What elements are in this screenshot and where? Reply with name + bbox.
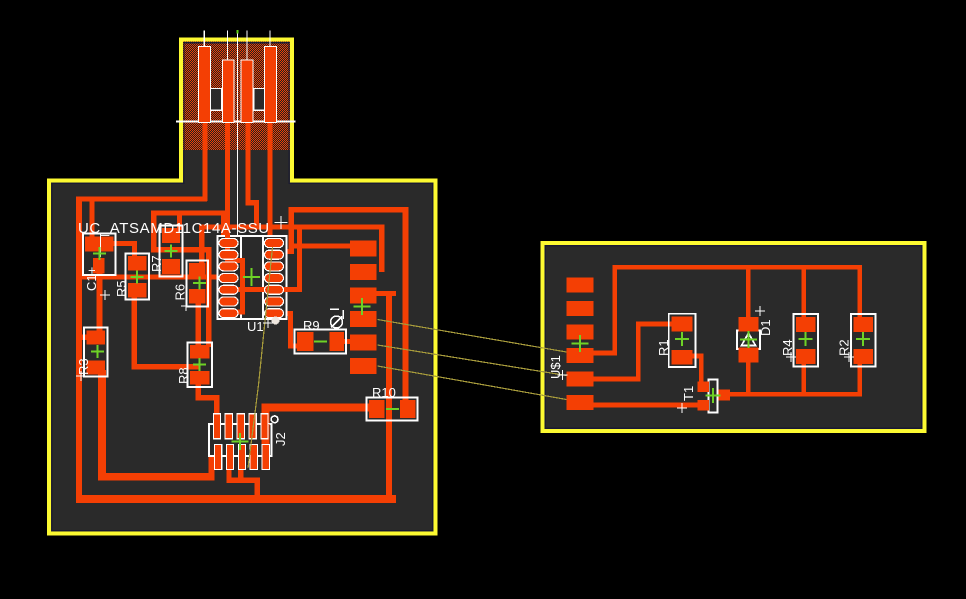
- J2 pad 4 bottom: [250, 445, 257, 470]
- wire R5 bottom horizontal to R8: [132, 364, 201, 369]
- J2 pad 5 top: [261, 414, 268, 439]
- wire R1 bottom to T1: [688, 354, 704, 359]
- connector J2: [209, 424, 272, 456]
- connector USB pad 3: [241, 60, 253, 123]
- wire R3 bottom down inner loop: [98, 370, 106, 480]
- transistor T1: [709, 380, 718, 413]
- wire down into J2 pad1 top: [214, 395, 219, 416]
- wire rail2 to R6 top: [199, 224, 204, 263]
- wire rail2 to U1 body crossing: [297, 229, 302, 292]
- U1 pin 8: [265, 309, 284, 318]
- wire down into R5 top: [132, 241, 137, 257]
- wire rail down to R2 top: [858, 265, 863, 318]
- wire down to GND bottom: [255, 477, 260, 499]
- wire into R9 left pad: [288, 343, 298, 348]
- U1 pin 4: [219, 274, 238, 283]
- U1 pin 1: [219, 239, 238, 248]
- wire R8 bottom down: [196, 384, 201, 400]
- U1 pin 3: [219, 262, 238, 271]
- svg-text:R5: R5: [114, 280, 129, 297]
- J2 pad 4 top: [249, 414, 256, 439]
- svg-text:R8: R8: [176, 367, 191, 384]
- board outline left (main PCB with USB tab): [49, 40, 436, 534]
- wire U1 channel vertical: [240, 258, 245, 315]
- IC U1: [218, 236, 287, 319]
- svg-text:R3: R3: [76, 358, 91, 375]
- capacitor C1: [83, 234, 116, 276]
- wire lower horizontal to R8: [151, 247, 211, 252]
- wire rail L left corner down: [151, 211, 157, 253]
- connector S1 pads: [350, 241, 377, 375]
- wire J2 bottom horizontal: [226, 477, 260, 483]
- wire down to R8 top: [206, 247, 211, 347]
- wire tap to R3 top: [77, 334, 92, 340]
- wire J2 right vertical over silk: [262, 424, 270, 456]
- wire hook into U1 R2: [284, 249, 294, 254]
- svg-text:R7: R7: [149, 255, 164, 272]
- wire into R1 top: [636, 322, 672, 327]
- S1 pad 3: [350, 288, 377, 304]
- wire C1 bottom to R3 top: [97, 271, 103, 332]
- connector USB pad 2: [223, 60, 235, 123]
- wire USB pad2 down: [225, 116, 230, 263]
- J2 pad 3 top: [237, 414, 244, 439]
- wire U$1 pad6 to T1 bottom left: [594, 403, 702, 408]
- J2 pad 1 top: [213, 414, 220, 439]
- J2 pad 1 bottom: [215, 445, 222, 470]
- wire rail R down to R10: [403, 207, 409, 418]
- U1 origin cross: [243, 268, 260, 286]
- wire up corner: [636, 322, 641, 382]
- wire USB pad3 down: [245, 116, 250, 205]
- S1 pad 4: [350, 311, 377, 327]
- wire rail R left corner down: [288, 207, 294, 254]
- J2 pad 2 bottom: [226, 445, 233, 470]
- wire rail L to R7 top: [177, 212, 182, 230]
- resistor R2: [851, 314, 876, 367]
- wire J2 to R10 horizontal thick: [262, 404, 378, 412]
- wire into U$1 pad4: [594, 351, 618, 356]
- J2 pad 5 bottom: [262, 445, 269, 470]
- resistor R7: [160, 226, 183, 277]
- resistor R10: [367, 398, 418, 421]
- wire C1 top to R5 top horizontal: [103, 241, 137, 246]
- airwire S1 pad5 to U$1: [378, 345, 567, 376]
- U1 pin 6: [219, 297, 238, 306]
- svg-text:D1: D1: [758, 319, 773, 336]
- svg-text:R10: R10: [372, 385, 396, 400]
- wire jog to U1 channel: [225, 258, 245, 263]
- svg-text:T1: T1: [681, 386, 696, 401]
- resistor R1: [669, 314, 696, 367]
- U1 pin 10: [265, 285, 284, 294]
- wire R8 to J2 horizontal: [196, 395, 220, 400]
- S1 pad 5: [350, 335, 377, 351]
- wire GND bottom horizontal: [76, 495, 396, 503]
- U$1 pad 5: [567, 372, 594, 387]
- wire tap to C1 top: [89, 201, 94, 238]
- wire rail down to D1 top: [746, 267, 751, 318]
- resistor R9: [295, 330, 347, 354]
- wire right top rail: [613, 265, 863, 270]
- airwire U1 to J2 vertical: [248, 247, 273, 468]
- wire USB pad4 down to U1 R1: [267, 116, 272, 238]
- wire R5 bottom down: [132, 297, 137, 370]
- svg-text:R1: R1: [656, 339, 671, 356]
- wire rail L horizontal: [151, 211, 226, 216]
- connector USB pad 4: [265, 47, 277, 123]
- connector U$1 pads: [567, 278, 594, 411]
- inner dark outline right board: [545, 246, 921, 428]
- wire R2 bottom down: [858, 364, 863, 396]
- resistor R8: [188, 343, 213, 388]
- S1 origin cross: [354, 298, 371, 315]
- U1 pin 14: [265, 239, 284, 248]
- connector USB silk lines: [176, 31, 296, 241]
- J2 pad 3 bottom: [238, 445, 245, 470]
- wire up into J2 pad1 bottom: [208, 455, 214, 480]
- svg-text:R4: R4: [780, 339, 795, 356]
- airwire S1 pad6 to U$1: [378, 366, 567, 400]
- wire GND right vertical to S1 pad3: [386, 291, 392, 503]
- wire D1 bottom down: [746, 362, 751, 396]
- U$1 pad 3: [567, 325, 594, 340]
- svg-text:R9: R9: [303, 318, 320, 333]
- wire rail left corner down: [613, 265, 618, 356]
- wire GND left vertical: [76, 196, 82, 503]
- wire down to T1 top left pad: [699, 354, 704, 385]
- USB tab hatched copper area: [183, 42, 290, 150]
- U$1 pad 1: [567, 278, 594, 293]
- wire body crossing over U1 silk: [222, 287, 302, 292]
- wire R6 bottom to R8 top: [196, 303, 201, 345]
- wire R9 right to S1 pad5: [344, 339, 351, 344]
- diode D1: [737, 331, 760, 350]
- wire bottom rail from T1 right: [729, 392, 863, 397]
- U1 pin 12: [265, 262, 284, 271]
- inner dark outline left board: [52, 43, 433, 531]
- connector USB shell brackets: [209, 89, 222, 111]
- svg-text:UC_ATSAMD11C14A-SSU: UC_ATSAMD11C14A-SSU: [78, 220, 270, 237]
- wire rail down to R4 top: [802, 267, 807, 318]
- U1 pin 11: [265, 274, 284, 283]
- wire GND top horizontal: [76, 196, 207, 201]
- J2 origin cross: [232, 433, 249, 450]
- J2 pad 2 top: [225, 414, 232, 439]
- wire USB pad1 GND down: [202, 116, 207, 201]
- svg-text:U1: U1: [247, 319, 264, 334]
- wire J2 pad2 bottom down: [226, 462, 231, 483]
- svg-text:J2: J2: [273, 432, 288, 446]
- resistor R3: [84, 328, 108, 377]
- S1 label symbol: [330, 309, 343, 328]
- resistor R5: [126, 254, 150, 300]
- U$1 pad 6: [567, 395, 594, 410]
- wire R4 bottom down: [802, 364, 807, 396]
- wire J2 pad3 bottom down: [238, 462, 243, 483]
- svg-text:C1+: C1+: [84, 267, 99, 291]
- U1 pin 13: [265, 250, 284, 259]
- wire USB pad2 trace over U1 silk: [225, 235, 230, 263]
- wire down to R9 left: [288, 311, 293, 349]
- U$1 origin cross: [572, 335, 589, 352]
- wire U1 R7 hook: [284, 311, 294, 316]
- S1 pad 1: [350, 241, 377, 257]
- resistor R4: [794, 314, 819, 367]
- wire S1 pad3 stub: [377, 291, 397, 296]
- wire jog right: [245, 200, 259, 205]
- U1 pin 7: [219, 309, 238, 318]
- U1 pin 5: [219, 285, 238, 294]
- board outline right (LED PCB): [543, 243, 925, 431]
- wire S1 pad1 horizontal: [292, 243, 351, 248]
- wire U$1 pad5 horizontal: [594, 377, 641, 382]
- wire U1 body crossing horizontal: [222, 287, 302, 292]
- wire J2 right vertical thick: [262, 406, 270, 470]
- J2 pin1 circle marker: [271, 416, 278, 423]
- connector USB pad 1: [199, 47, 211, 123]
- wire long horizontal through R5 R6 gaps: [79, 274, 228, 279]
- S1 pad 6: [350, 358, 377, 374]
- resistor R6: [187, 261, 209, 307]
- S1 pad 2: [350, 264, 377, 280]
- wire inner loop bottom horizontal: [98, 473, 215, 481]
- wire rail R horizontal: [288, 207, 408, 213]
- wire hook into U1 pad L7: [228, 310, 245, 315]
- wire rail2 down to S1 pad2: [379, 229, 384, 272]
- U$1 pad 2: [567, 301, 594, 316]
- svg-text:R6: R6: [173, 284, 188, 301]
- wire rail2 horizontal: [199, 224, 384, 229]
- U1 pin 2: [219, 250, 238, 259]
- wire rail L to U1 L1: [221, 211, 226, 241]
- U$1 pad 4: [567, 348, 594, 363]
- U1 pin1 marker dot: [272, 317, 280, 325]
- U1 pin 9: [265, 297, 284, 306]
- wire down to rail2: [254, 200, 259, 229]
- airwire S1 pad4 to U$1: [378, 320, 567, 353]
- connector USB origin tick: [236, 30, 238, 34]
